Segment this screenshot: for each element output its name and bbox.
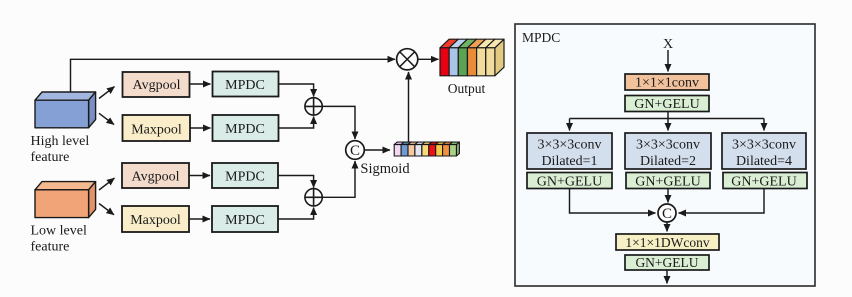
svg-text:Sigmoid: Sigmoid — [360, 161, 410, 177]
svg-text:feature: feature — [31, 240, 70, 255]
svg-text:Avgpool: Avgpool — [133, 78, 181, 93]
svg-text:MPDC: MPDC — [225, 78, 265, 93]
svg-text:1×1×1DWconv: 1×1×1DWconv — [625, 235, 709, 250]
svg-text:C: C — [350, 143, 360, 159]
svg-text:C: C — [662, 206, 672, 222]
svg-text:Avgpool: Avgpool — [132, 170, 180, 185]
svg-text:High level: High level — [31, 134, 90, 149]
svg-text:Maxpool: Maxpool — [130, 213, 181, 228]
svg-text:Output: Output — [448, 81, 486, 96]
svg-text:Dilated=1: Dilated=1 — [541, 154, 597, 169]
svg-text:1×1×1conv: 1×1×1conv — [635, 76, 699, 91]
svg-text:MPDC: MPDC — [522, 30, 560, 45]
svg-text:Dilated=4: Dilated=4 — [736, 154, 792, 169]
svg-text:GN+GELU: GN+GELU — [635, 174, 700, 189]
svg-text:GN+GELU: GN+GELU — [634, 97, 699, 112]
svg-text:Low level: Low level — [31, 224, 87, 239]
svg-text:Maxpool: Maxpool — [131, 123, 182, 138]
svg-text:X: X — [663, 37, 673, 52]
svg-text:3×3×3conv: 3×3×3conv — [537, 137, 601, 152]
svg-text:3×3×3conv: 3×3×3conv — [636, 137, 700, 152]
svg-text:3×3×3conv: 3×3×3conv — [732, 137, 796, 152]
svg-text:MPDC: MPDC — [225, 170, 265, 185]
svg-text:GN+GELU: GN+GELU — [537, 174, 602, 189]
svg-text:GN+GELU: GN+GELU — [731, 174, 796, 189]
svg-text:Dilated=2: Dilated=2 — [640, 154, 696, 169]
svg-text:feature: feature — [31, 150, 70, 165]
svg-text:GN+GELU: GN+GELU — [635, 255, 698, 270]
svg-text:MPDC: MPDC — [225, 213, 265, 228]
svg-text:MPDC: MPDC — [225, 122, 265, 137]
